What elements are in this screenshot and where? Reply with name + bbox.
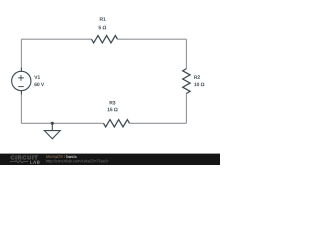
wire right vertical from R2 bottom to bottom-right corner: [185, 94, 187, 124]
wire left vertical from V1 minus terminal to bottom-left corner: [20, 94, 22, 123]
ground triangle: [44, 131, 60, 139]
wire right vertical from top-right corner to R2 top: [185, 39, 187, 68]
banner line 2 url: [46, 159, 108, 163]
value 10 ohm: [194, 83, 204, 87]
value 15 ohm: [107, 108, 117, 112]
resistor R1 zigzag: [92, 36, 118, 43]
wire top from R1 right to top-right corner: [118, 38, 187, 40]
voltage source V1 circle: [12, 71, 31, 90]
ground stub: [51, 123, 53, 130]
wire bottom from R3 right to bottom-right corner: [130, 122, 187, 124]
value 60 V: [34, 83, 44, 87]
resistor R2 zigzag: [183, 69, 190, 94]
junction dot: [51, 122, 54, 125]
minus sign: [18, 86, 24, 88]
banner logo CIRCUIT: [11, 155, 38, 159]
wire top from node A to R1 left: [21, 38, 91, 40]
voltage source V1 terminal stubs: [20, 68, 22, 72]
banner background: [0, 154, 220, 165]
label R2: [194, 75, 200, 78]
banner logo zigzag: [10, 161, 28, 163]
value 5 ohm: [99, 26, 107, 30]
label V1: [34, 75, 40, 78]
wire left vertical from top corner to V1 plus terminal: [20, 39, 22, 68]
resistor R3 zigzag: [104, 120, 130, 127]
wire bottom from bottom-left corner to R3 left: [21, 122, 103, 124]
banner line 1 username: [46, 155, 65, 158]
label R1: [100, 17, 106, 20]
plus sign: [18, 75, 24, 81]
banner logo LAB: [30, 161, 39, 164]
label R3: [110, 101, 116, 105]
